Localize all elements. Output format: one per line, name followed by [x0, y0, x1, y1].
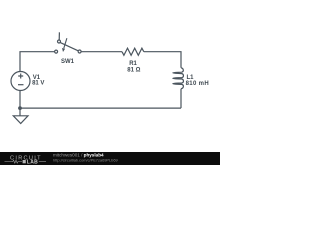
- svg-text:LAB: LAB: [27, 159, 38, 165]
- ground triangle: [13, 116, 28, 124]
- inductor L1 coil: [173, 68, 183, 89]
- V1 plus sign: [18, 74, 23, 79]
- svg-text:81 Ω: 81 Ω: [127, 68, 140, 74]
- switch SW1 arrowhead: [62, 48, 65, 52]
- resistor R1 zigzag body: [122, 48, 144, 55]
- watermark logo battery mark: [23, 160, 26, 163]
- junction node dot: [18, 106, 22, 110]
- svg-text:SW1: SW1: [61, 59, 75, 65]
- svg-text:81 V: 81 V: [32, 81, 44, 87]
- switch SW1 top terminal stub: [58, 32, 60, 40]
- wire bottom rail: [20, 107, 181, 109]
- switch SW1 top terminal circle: [58, 40, 61, 43]
- wire top-left: from V1 top up and right to SW1 left terminal: [20, 52, 55, 72]
- switch SW1 arrow shaft: [64, 38, 67, 48]
- wire: SW1 right terminal to resistor R1: [81, 51, 122, 53]
- watermark logo schematic wire right of LAB: [39, 161, 46, 163]
- V1 minus sign: [18, 84, 24, 86]
- svg-text:R1: R1: [129, 61, 137, 67]
- switch SW1 left terminal circle: [55, 50, 58, 53]
- watermark footer bar: [0, 152, 220, 165]
- svg-text:http://circuitlab.com/c/PE7za6: http://circuitlab.com/c/PE7za69PLb69: [53, 157, 118, 162]
- watermark logo schematic wire with resistor: [5, 160, 23, 163]
- wire: V1 bottom to junction: [19, 90, 21, 108]
- voltage source V1 circle: [11, 72, 30, 91]
- svg-text:810 mH: 810 mH: [186, 81, 209, 87]
- wire: R1 to top-right corner and down to L1: [144, 52, 181, 68]
- ground stub: [19, 108, 21, 116]
- switch SW1 blade: [60, 43, 78, 51]
- wire: L1 bottom down to bottom rail: [180, 89, 182, 108]
- switch SW1 right terminal circle: [78, 50, 81, 53]
